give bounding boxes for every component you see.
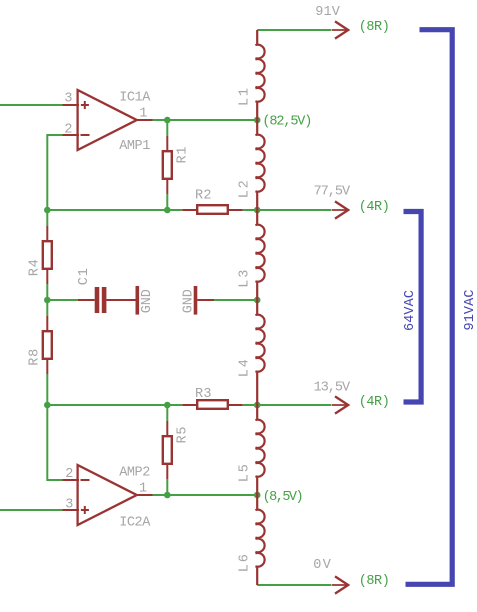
svg-text:91V: 91V bbox=[315, 5, 340, 20]
svg-text:L5: L5 bbox=[238, 464, 253, 482]
svg-text:(4R): (4R) bbox=[359, 395, 390, 410]
svg-text:R8: R8 bbox=[28, 349, 43, 366]
svg-text:L2: L2 bbox=[238, 180, 253, 198]
svg-text:C1: C1 bbox=[77, 268, 92, 285]
svg-text:91VAC: 91VAC bbox=[463, 290, 477, 331]
svg-text:R2: R2 bbox=[195, 189, 212, 204]
svg-text:1: 1 bbox=[139, 481, 147, 496]
svg-text:0V: 0V bbox=[313, 558, 331, 573]
svg-text:L1: L1 bbox=[238, 88, 253, 106]
svg-text:64VAC: 64VAC bbox=[403, 290, 418, 331]
svg-text:R5: R5 bbox=[176, 427, 191, 444]
svg-text:77,5V: 77,5V bbox=[314, 184, 351, 199]
svg-text:R4: R4 bbox=[28, 259, 43, 276]
svg-text:IC2A: IC2A bbox=[119, 515, 151, 530]
svg-text:1: 1 bbox=[139, 107, 147, 122]
svg-text:2: 2 bbox=[64, 123, 72, 138]
svg-text:GND: GND bbox=[140, 289, 155, 313]
svg-text:AMP1: AMP1 bbox=[119, 139, 150, 154]
svg-text:GND: GND bbox=[182, 289, 197, 313]
svg-text:(82,5V): (82,5V) bbox=[262, 114, 312, 129]
svg-text:2: 2 bbox=[65, 467, 73, 482]
svg-text:(8R): (8R) bbox=[359, 20, 390, 35]
svg-text:13,5V: 13,5V bbox=[314, 380, 351, 395]
svg-text:L4: L4 bbox=[238, 359, 253, 377]
svg-text:L3: L3 bbox=[238, 270, 253, 288]
svg-text:AMP2: AMP2 bbox=[119, 465, 150, 480]
svg-text:R1: R1 bbox=[176, 147, 191, 164]
svg-text:R3: R3 bbox=[195, 387, 212, 402]
svg-text:3: 3 bbox=[64, 91, 72, 106]
svg-text:IC1A: IC1A bbox=[119, 91, 151, 106]
svg-text:(4R): (4R) bbox=[359, 200, 390, 215]
svg-text:L6: L6 bbox=[238, 554, 253, 572]
svg-text:(8R): (8R) bbox=[359, 574, 390, 589]
svg-text:3: 3 bbox=[65, 497, 73, 512]
svg-text:(8,5V): (8,5V) bbox=[263, 490, 304, 505]
